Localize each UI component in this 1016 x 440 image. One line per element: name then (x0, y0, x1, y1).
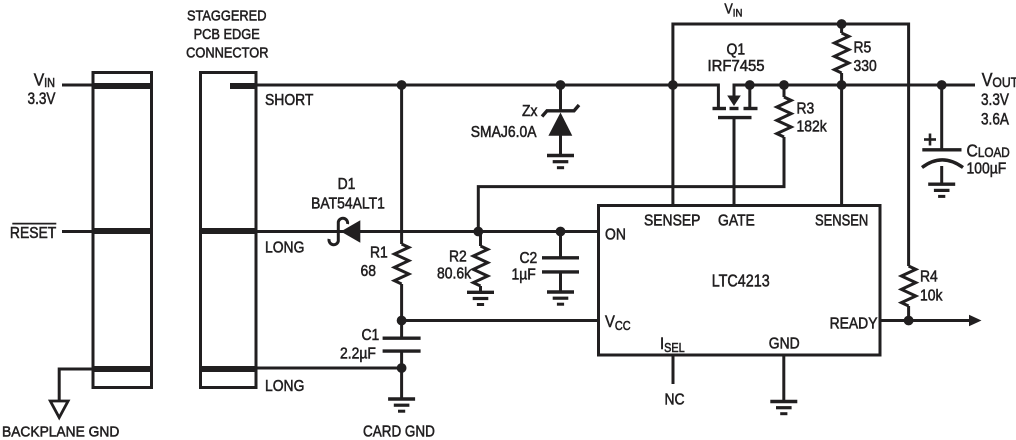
pin label GATE (718, 212, 755, 230)
node SENSEP tap (668, 80, 678, 90)
label BACKPLANE GND (2, 424, 119, 440)
transistor Q1 plates (713, 107, 727, 110)
label VIN 3.3V (34, 69, 55, 90)
svg-text:C1: C1 (362, 326, 380, 344)
zener Zx cathode bar with bent ends (542, 105, 579, 117)
CLOAD plus sign (924, 138, 936, 141)
transistor Q1 gate plate (718, 116, 752, 119)
wire READY output with arrow (881, 319, 971, 322)
wire ISEL pin (672, 357, 675, 385)
svg-text:VIN: VIN (34, 69, 55, 90)
pin label LONG (middle) (265, 239, 304, 257)
svg-text:LTC4213: LTC4213 (712, 272, 770, 291)
svg-text:SHORT: SHORT (265, 91, 313, 109)
svg-text:3.3V: 3.3V (28, 89, 57, 108)
node VCC/C1 (397, 316, 407, 326)
transistor Q1 gate lead / wire to GATE pin (733, 118, 736, 205)
transistor Q1 source lead (748, 85, 751, 107)
svg-text:10k: 10k (920, 287, 943, 305)
svg-text:RESET: RESET (10, 224, 56, 242)
zener Zx lead top (559, 85, 562, 112)
svg-text:330: 330 (854, 57, 877, 75)
card pin pad SHORT (230, 83, 258, 89)
node R5 top (837, 19, 847, 29)
svg-text:SMAJ6.0A: SMAJ6.0A (471, 123, 537, 141)
svg-text:CARD GND: CARD GND (363, 424, 435, 440)
svg-text:NC: NC (665, 391, 685, 409)
svg-text:1µF: 1µF (512, 265, 536, 283)
svg-text:STAGGERED: STAGGERED (187, 7, 266, 24)
resistor R4 10k (901, 266, 915, 306)
svg-text:ISEL: ISEL (660, 335, 685, 355)
svg-text:GND: GND (769, 335, 800, 353)
wire SENSEN pin (840, 85, 843, 205)
svg-text:PCB EDGE: PCB EDGE (194, 25, 260, 42)
svg-text:R3: R3 (797, 100, 815, 118)
label VOUT 3.3V 3.6A (982, 69, 1016, 90)
pin label VCC (605, 313, 631, 333)
svg-text:R5: R5 (854, 39, 872, 57)
svg-text:2.2µF: 2.2µF (340, 345, 376, 363)
wire top VIN rail (673, 24, 909, 266)
label NC (665, 391, 685, 409)
resistor R1 68 (400, 85, 403, 244)
wire GND pin (782, 357, 785, 402)
wire main VIN rail (left of Q1, ends in drain elbow) (256, 85, 718, 107)
svg-text:3.6A: 3.6A (981, 110, 1010, 129)
pin label ISEL (660, 335, 685, 355)
ground (C2) (547, 290, 574, 293)
svg-text:R2: R2 (449, 248, 467, 266)
node R2/R3 on ON line (473, 227, 483, 237)
svg-text:SENSEN: SENSEN (815, 212, 868, 230)
transistor Q1 body diode arrow (727, 96, 741, 107)
node CLOAD tap (937, 80, 947, 90)
zener Zx lead bottom (559, 135, 562, 155)
wire LONG pin to ON pin (256, 230, 599, 233)
diode D1 schottky cathode bar (329, 218, 348, 244)
node R1/VCC tap (397, 80, 407, 90)
node C1/LONG (397, 363, 407, 373)
svg-text:BAT54ALT1: BAT54ALT1 (311, 195, 385, 213)
wire VCC line (402, 319, 599, 322)
wire LONG bottom pin to C1 (256, 367, 402, 370)
svg-text:3.3V: 3.3V (981, 91, 1010, 110)
resistor R3 182k (783, 85, 786, 97)
CLOAD curved plate (922, 160, 963, 168)
label CLOAD 100uF (967, 141, 1010, 161)
pin label SHORT (265, 91, 313, 109)
label: STAGGERED PCB EDGE CONNECTOR (187, 7, 266, 24)
card edge connector (right half) (201, 73, 257, 388)
resistor R5 330 (840, 24, 843, 33)
ground (IC GND) (770, 400, 797, 403)
svg-text:IRF7455: IRF7455 (708, 58, 765, 76)
svg-text:Q1: Q1 (727, 41, 746, 59)
wire RESET to connector (62, 230, 93, 233)
svg-text:68: 68 (361, 262, 376, 280)
svg-text:SENSEP: SENSEP (644, 212, 700, 230)
svg-text:Zx: Zx (522, 102, 538, 120)
ground (R2) (467, 291, 494, 294)
pin label GND (769, 335, 800, 353)
capacitor C1 2.2uF (400, 321, 403, 339)
op-amp/IC U1 LTC4213 box (599, 206, 881, 356)
wire R3 bottom to ON node (478, 137, 784, 232)
backplane edge connector (left half) (93, 73, 152, 388)
diode D1 labels (338, 175, 356, 193)
ground (zener) (547, 154, 574, 157)
svg-text:VCC: VCC (605, 313, 631, 333)
svg-text:D1: D1 (338, 175, 356, 193)
label VIN (top rail) (724, 1, 742, 20)
label CARD GND (363, 424, 435, 440)
wire to backplane gnd (59, 369, 92, 401)
node zener tap (556, 80, 566, 90)
capacitor CLOAD 100uF (940, 85, 943, 150)
svg-text:R4: R4 (920, 268, 938, 286)
card pin pad LONG (middle) (200, 228, 257, 234)
svg-text:ON: ON (605, 226, 626, 244)
backplane pin pad RESET (92, 228, 153, 234)
svg-text:LONG: LONG (265, 239, 304, 257)
svg-text:CLOAD: CLOAD (967, 141, 1010, 161)
wire VIN to connector (62, 84, 93, 87)
svg-text:LONG: LONG (265, 377, 304, 395)
diode D1 triangle (341, 220, 361, 242)
svg-text:80.6k: 80.6k (437, 265, 471, 283)
svg-text:CONNECTOR: CONNECTOR (186, 44, 268, 61)
node R5/SENSEN tap (837, 80, 847, 90)
pin label READY (830, 315, 878, 333)
wire main rail right of Q1 (body elbow to VOUT) (734, 85, 975, 96)
zener Zx SMAJ6.0A labels (522, 102, 538, 120)
backplane gnd arrow symbol (50, 401, 68, 418)
transistor Q1 labels (727, 41, 746, 59)
backplane pin pad VIN (92, 83, 153, 89)
card pin pad LONG (bottom) (200, 366, 257, 372)
svg-text:R1: R1 (370, 244, 388, 262)
backplane pin pad GND (92, 366, 153, 372)
capacitor C2 1uF (559, 232, 562, 258)
svg-text:100µF: 100µF (967, 160, 1007, 178)
ground (card gnd) (388, 397, 415, 400)
svg-text:READY: READY (830, 315, 878, 333)
node Q1 source (745, 80, 755, 90)
ground (CLOAD) (928, 182, 955, 185)
node R3 tap (779, 80, 789, 90)
resistor R2 80.6k (479, 232, 482, 247)
pin label SENSEN (815, 212, 868, 230)
svg-text:182k: 182k (797, 118, 828, 136)
svg-text:GATE: GATE (718, 212, 755, 230)
svg-text:VOUT: VOUT (982, 69, 1016, 90)
node C2 on ON line (556, 227, 566, 237)
label RESET (active low) (10, 224, 56, 242)
node READY/R4 (904, 316, 914, 326)
zener Zx triangle (548, 113, 572, 136)
pin label LONG (bottom) (265, 377, 304, 395)
pin label SENSEP (644, 212, 700, 230)
wire SENSEP pin (671, 85, 674, 205)
svg-text:VIN: VIN (724, 1, 742, 20)
pin label ON (605, 226, 626, 244)
svg-text:BACKPLANE GND: BACKPLANE GND (2, 424, 119, 440)
